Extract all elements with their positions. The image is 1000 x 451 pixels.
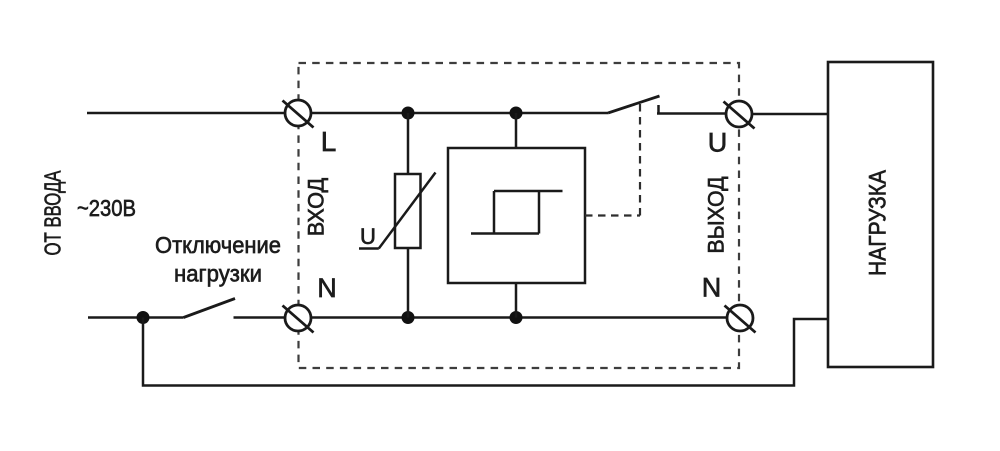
svg-text:Отключение: Отключение — [155, 232, 281, 258]
svg-text:ОТ ВВОДА: ОТ ВВОДА — [40, 170, 66, 255]
load-disconnect switch blade — [184, 299, 236, 318]
node junction top varistor — [402, 107, 415, 120]
wire N input from source — [88, 316, 184, 319]
wire varistor bottom lead — [407, 248, 410, 318]
svg-text:N: N — [702, 273, 722, 303]
svg-text:ВЫХОД: ВЫХОД — [704, 176, 729, 253]
terminal N input — [283, 305, 314, 333]
load box — [828, 62, 933, 367]
node junction N split — [137, 311, 150, 324]
svg-text:нагрузки: нагрузки — [174, 261, 262, 287]
wire switch to terminal N input — [234, 316, 286, 319]
node junction bottom relay — [510, 311, 523, 324]
node junction bottom varistor — [402, 311, 415, 324]
label Отключение нагрузки — [155, 232, 281, 287]
wire L inside device — [311, 112, 608, 115]
relay switch contact (normally closed blade) — [608, 96, 660, 114]
dashed enclosure (protection device boundary) — [299, 63, 740, 368]
wire switch to terminal U — [657, 112, 726, 115]
wire varistor top lead — [407, 113, 410, 174]
terminal U output — [724, 101, 755, 129]
node junction top relay — [510, 107, 523, 120]
wire terminal U to load — [752, 113, 829, 116]
svg-text:N: N — [317, 273, 337, 303]
svg-text:НАГРУЗКА: НАГРУЗКА — [865, 170, 892, 276]
wire L input from source — [87, 112, 285, 115]
wire N return to load (bypass) — [143, 318, 829, 386]
svg-text:~230В: ~230В — [77, 195, 136, 221]
wire N inside device — [311, 316, 727, 319]
varistor diagonal stroke — [379, 173, 436, 249]
svg-text:U: U — [708, 128, 728, 158]
hysteresis symbol — [471, 191, 563, 234]
terminal L input — [283, 100, 314, 128]
svg-text:ВХОД: ВХОД — [304, 178, 329, 237]
wire control unit top lead — [515, 113, 518, 148]
svg-text:L: L — [321, 126, 337, 157]
svg-text:U: U — [360, 224, 376, 249]
wire control unit bottom lead — [515, 283, 518, 318]
terminal N output — [725, 305, 756, 333]
control unit box U1 — [448, 148, 585, 283]
dashed control link to relay contact — [585, 100, 640, 216]
varistor RU body — [395, 174, 421, 248]
varistor diagonal foot — [359, 247, 379, 250]
